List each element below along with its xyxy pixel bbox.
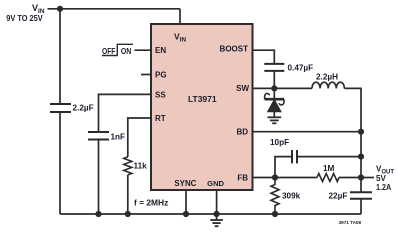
- wire input cap branch: [59, 9, 61, 214]
- svg-text:1M: 1M: [323, 164, 335, 173]
- svg-text:SYNC: SYNC: [174, 179, 196, 188]
- svg-text:ON: ON: [121, 47, 131, 56]
- wire BOOST branch: [253, 50, 275, 88]
- wire FB: [253, 177, 318, 179]
- node junction 11k: [125, 211, 131, 217]
- svg-text:10pF: 10pF: [270, 138, 289, 147]
- node VOUT label: [376, 165, 394, 193]
- svg-text:3971 TA08: 3971 TA08: [339, 220, 362, 225]
- node junction VIN: [57, 6, 63, 12]
- node VOUT junction: [358, 174, 364, 180]
- ground (GND pin): [210, 220, 223, 226]
- wire RT branch: [128, 118, 151, 214]
- node junction 309k: [272, 211, 278, 217]
- wire 10pF branch: [275, 157, 361, 178]
- node junction SYNC: [183, 211, 189, 217]
- svg-text:1nF: 1nF: [111, 133, 126, 142]
- svg-text:9V TO 25V: 9V TO 25V: [6, 14, 43, 23]
- svg-text:GND: GND: [207, 179, 224, 188]
- svg-text:SS: SS: [155, 91, 166, 100]
- wire L1 to rail: [344, 88, 361, 131]
- node junction 1nF: [95, 211, 101, 217]
- capacitor C5 22uF: [329, 192, 373, 201]
- wire 1M to rail: [339, 177, 361, 179]
- svg-text:2.2µH: 2.2µH: [316, 73, 338, 82]
- capacitor C4 10pF: [270, 138, 297, 163]
- wire bottom rail: [60, 213, 361, 215]
- svg-text:BOOST: BOOST: [220, 45, 249, 54]
- capacitor C3 0.47uF: [264, 64, 313, 73]
- svg-text:RT: RT: [155, 114, 166, 123]
- resistor R2 1M: [317, 164, 339, 182]
- svg-text:EN: EN: [155, 46, 166, 55]
- capacitor C1 2.2uF: [50, 104, 94, 113]
- inductor L1 2.2uH: [312, 73, 344, 89]
- wire SYNC drop: [185, 190, 187, 214]
- svg-text:OFF: OFF: [102, 47, 115, 56]
- node junction GND: [214, 211, 220, 217]
- wire EN: [135, 49, 152, 51]
- wire top VIN rail: [48, 8, 181, 10]
- wire SS branch: [99, 94, 152, 214]
- wire BD: [253, 131, 362, 133]
- svg-text:5V: 5V: [376, 174, 386, 183]
- node BD junction: [358, 129, 364, 135]
- node 10pF junction: [358, 154, 364, 160]
- svg-text:SW: SW: [236, 84, 249, 93]
- svg-text:f = 2MHz: f = 2MHz: [134, 198, 168, 207]
- node SW junction: [271, 85, 277, 91]
- node VIN label: [6, 3, 45, 23]
- wire PG stub: [141, 74, 151, 76]
- svg-text:2.2µF: 2.2µF: [73, 104, 94, 113]
- wire SW: [253, 87, 313, 89]
- capacitor C2 1nF: [88, 132, 125, 142]
- svg-text:0.47µF: 0.47µF: [288, 64, 314, 73]
- resistor R3 309k: [271, 178, 301, 215]
- resistor R1 11k: [124, 157, 147, 175]
- diode D1 schottky: [265, 88, 284, 117]
- wire right rail: [360, 132, 362, 214]
- svg-text:22µF: 22µF: [329, 192, 348, 201]
- svg-text:1.2A: 1.2A: [376, 183, 391, 192]
- svg-text:FB: FB: [237, 174, 248, 183]
- wire VIN pin drop: [179, 9, 181, 24]
- wire GND drop: [216, 191, 218, 220]
- svg-text:PG: PG: [155, 71, 167, 80]
- svg-text:309k: 309k: [282, 192, 301, 201]
- wire VOUT stub: [361, 177, 374, 179]
- switch OFF/ON enable symbol: [102, 44, 133, 56]
- svg-text:LT3971: LT3971: [188, 94, 217, 104]
- svg-text:11k: 11k: [134, 162, 148, 171]
- op-amp U1 LT3971 body: [151, 24, 253, 190]
- ground (diode): [268, 117, 282, 123]
- svg-text:BD: BD: [236, 128, 248, 137]
- node FB junction: [272, 174, 278, 180]
